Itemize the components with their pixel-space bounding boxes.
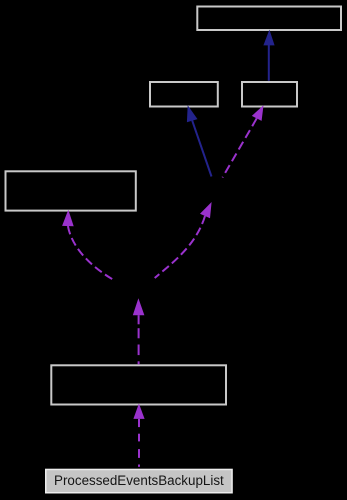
usage edge E4: curve from junction up-right to label node (dashed purple) [155, 202, 212, 278]
inheritance arrow E2: label node to upper-middle-left box (solid blue) [187, 105, 212, 176]
node box top (base class) [197, 7, 341, 31]
usage edge E5: curve from junction up-left to left box (dashed purple) [62, 210, 112, 279]
node box left [6, 171, 136, 210]
node box upper-middle-left [150, 82, 218, 107]
inheritance arrow E1: upper-middle-right box to top box (solid blue) [263, 30, 274, 81]
node box middle [51, 365, 226, 404]
usage arrow E7: ProcessedEventsBackupList up to middle box (dashed purple) [133, 404, 144, 467]
node box upper-middle-right [242, 82, 297, 107]
svg-text:ProcessedEventsBackupList: ProcessedEventsBackupList [54, 473, 224, 488]
node ProcessedEventsBackupList (main node, grey) [46, 469, 232, 492]
usage arrow E6: middle box up to junction/label (dashed purple) [133, 298, 145, 364]
usage arrow E3: label node to upper-middle-right box (dashed purple) [223, 105, 264, 177]
